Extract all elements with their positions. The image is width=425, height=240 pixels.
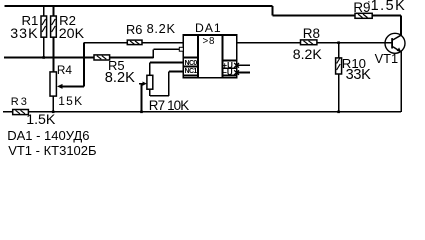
wire wiper riser: [83, 43, 85, 87]
label 1.5K of R9: [371, 0, 407, 13]
wire +U stub: [237, 64, 250, 66]
wire -U stub: [237, 72, 250, 74]
label VT1: [375, 52, 398, 65]
label R2: [59, 14, 76, 27]
wire mid rail left: [4, 56, 94, 58]
wire R10 top lead: [338, 43, 340, 58]
label R9: [353, 1, 370, 14]
wire top rail: [5, 5, 273, 7]
trimmer R7: [147, 75, 153, 89]
potentiometer R4: [50, 72, 56, 96]
label R6: [126, 23, 142, 36]
resistor R1: [41, 16, 47, 37]
op-amp U1 block DA1: [183, 35, 236, 78]
label R1: [22, 14, 39, 27]
resistor R2: [51, 16, 57, 37]
resistor R5: [94, 55, 110, 60]
pin label +U: [222, 62, 232, 70]
node R4/bottom-rail: [52, 111, 55, 114]
resistor R6: [127, 40, 142, 45]
wire R8 to base: [317, 42, 392, 44]
wire R10 bottom lead: [338, 74, 340, 112]
tick mark: [368, 0, 370, 12]
wire mid rail right: [110, 56, 154, 58]
wire bottom rail left: [3, 111, 13, 113]
label 8.2K of R6: [147, 22, 176, 35]
note line DA1: [7, 129, 89, 142]
wire rail to R9: [272, 14, 355, 16]
resistor R9: [355, 13, 372, 18]
wire riser to inverting pin: [153, 49, 179, 58]
resistor R10: [336, 58, 342, 75]
label 1.5K: [26, 114, 55, 127]
wire R7 top to NC0 pin: [150, 63, 183, 76]
label 33K of R10: [346, 69, 371, 82]
pin label -U: [222, 69, 232, 77]
label R5: [108, 59, 125, 72]
label 20K: [59, 28, 84, 41]
wire R2 bottom lead to R4: [53, 37, 55, 72]
wire R6 right to pin1: [142, 42, 183, 44]
node R10/base-wire: [337, 41, 340, 44]
wire top rail step: [271, 6, 273, 16]
resistor R3: [13, 110, 29, 115]
label 8.2K of R8: [293, 48, 322, 61]
R7 wiper arrowhead: [143, 82, 147, 86]
label R3: [11, 96, 29, 109]
wire R4 bottom lead: [52, 96, 54, 112]
wire R1 bottom lead: [43, 37, 45, 58]
transistor Q1 VT1: [385, 33, 405, 53]
node R1/mid-rail: [42, 56, 45, 59]
wire R6 left: [84, 42, 127, 44]
pin cross +U: [234, 63, 239, 68]
label 8.2K of R5: [105, 72, 135, 85]
wire collector lead: [400, 15, 402, 35]
wire R2 top lead: [53, 6, 55, 16]
label R10: [342, 57, 366, 70]
wire R1 top lead: [43, 6, 45, 16]
pin label NC0: [185, 60, 197, 67]
node R10/bottom-rail: [337, 111, 340, 114]
wire R7 wiper down: [139, 84, 145, 112]
node R7-wiper/bottom-rail: [140, 111, 143, 114]
wire R9 to collector corner: [372, 14, 401, 16]
label DA1: [195, 22, 222, 35]
op-amp symbol >8: [203, 37, 216, 47]
label R8: [303, 27, 320, 40]
R4 wiper arrowhead: [57, 84, 63, 89]
resistor R8: [301, 40, 317, 45]
pin cross -U: [234, 70, 239, 75]
wire output to R8: [237, 42, 301, 44]
label 33K: [10, 28, 38, 41]
wire bottom rail: [28, 52, 401, 112]
inverting input bubble: [179, 47, 183, 51]
label R7 10K: [149, 99, 189, 112]
label R4: [57, 64, 72, 77]
wire R7 bottom loop to NC1 pin: [150, 72, 183, 96]
pin label NC1: [185, 68, 197, 75]
wire R4 wiper: [61, 85, 84, 87]
label 15K: [58, 95, 83, 108]
note line VT1: [8, 144, 96, 157]
